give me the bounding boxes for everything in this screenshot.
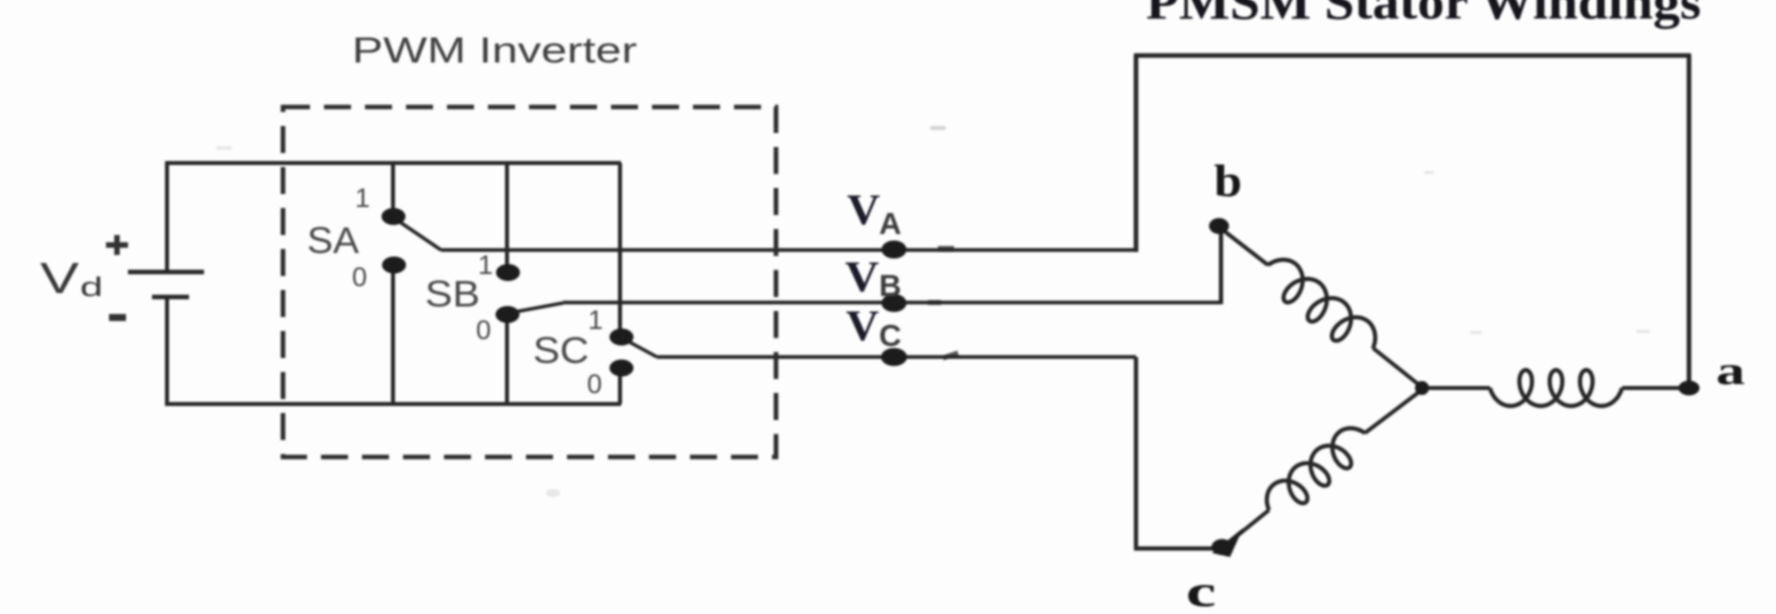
svg-text:B: B: [879, 268, 901, 303]
svg-text:0: 0: [476, 315, 491, 345]
svg-text:V: V: [847, 187, 880, 234]
svg-text:a: a: [1716, 348, 1745, 393]
svg-text:0: 0: [352, 262, 367, 292]
svg-text:1: 1: [478, 250, 493, 280]
svg-text:0: 0: [587, 369, 602, 399]
svg-text:V: V: [845, 254, 879, 301]
svg-text:1: 1: [588, 305, 603, 335]
svg-text:b: b: [1214, 155, 1242, 206]
svg-text:C: C: [879, 318, 901, 353]
svg-text:1: 1: [355, 183, 370, 213]
svg-text:SC: SC: [533, 330, 589, 371]
svg-text:V: V: [40, 254, 80, 303]
svg-text:d: d: [80, 272, 103, 302]
svg-text:c: c: [1186, 567, 1216, 614]
svg-text:A: A: [879, 206, 901, 241]
svg-text:V: V: [846, 303, 879, 350]
svg-text:PWM Inverter: PWM Inverter: [352, 30, 637, 71]
svg-text:SB: SB: [425, 274, 480, 315]
svg-text:PMSM Stator Windings: PMSM Stator Windings: [1146, 0, 1701, 30]
svg-text:SA: SA: [307, 220, 359, 261]
